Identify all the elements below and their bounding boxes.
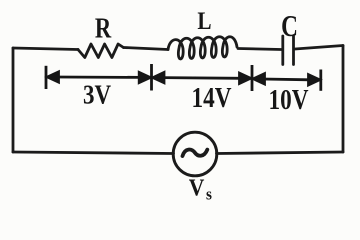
svg-text:14V: 14V bbox=[192, 82, 232, 114]
svg-text:3V: 3V bbox=[83, 81, 111, 110]
svg-text:10V: 10V bbox=[269, 84, 309, 116]
svg-text:R: R bbox=[95, 12, 112, 44]
svg-text:s: s bbox=[206, 186, 212, 204]
svg-text:V: V bbox=[189, 174, 205, 200]
svg-text:L: L bbox=[197, 7, 211, 35]
svg-text:C: C bbox=[281, 9, 298, 43]
